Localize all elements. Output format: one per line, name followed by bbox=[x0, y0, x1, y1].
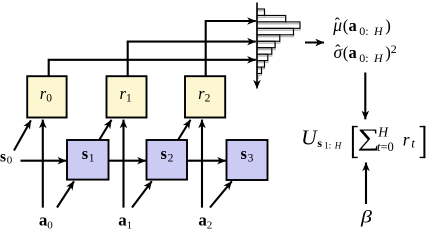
wire r0 top to histogram arrow bbox=[49, 60, 256, 76]
wire r1 top to histogram arrow bbox=[128, 42, 256, 76]
arrow a0 to s1 (diagonal) bbox=[57, 181, 74, 207]
histogram axis bbox=[256, 3, 258, 89]
svg-text:U: U bbox=[301, 126, 318, 150]
svg-text:0:: 0: bbox=[359, 51, 368, 65]
arrow a2 to s3 (diagonal) bbox=[210, 181, 232, 207]
svg-text:ˆ: ˆ bbox=[335, 16, 340, 33]
arrow a2 to r2 (vertical) bbox=[201, 120, 203, 208]
svg-text:1: 1 bbox=[126, 92, 132, 104]
arrow a0 to r0 (vertical) bbox=[42, 120, 44, 208]
label mu-hat(a_0:H) bbox=[332, 15, 391, 38]
svg-text:H: H bbox=[334, 141, 342, 151]
svg-text:0: 0 bbox=[7, 155, 13, 167]
svg-text:1: 1 bbox=[89, 152, 95, 164]
svg-text:r: r bbox=[403, 129, 410, 149]
svg-text:1: 1 bbox=[127, 219, 133, 230]
svg-text:s: s bbox=[0, 148, 6, 165]
svg-text:a: a bbox=[349, 43, 357, 62]
reward box r0 bbox=[27, 76, 66, 117]
wire s0 to s1 bbox=[21, 160, 67, 162]
svg-text:3: 3 bbox=[248, 152, 254, 164]
histogram black bars bbox=[257, 9, 300, 74]
state box s2 bbox=[147, 140, 188, 180]
svg-text:t=0: t=0 bbox=[377, 140, 394, 154]
arrow a1 to r1 (vertical) bbox=[122, 120, 124, 208]
svg-text:s: s bbox=[82, 144, 89, 163]
histogram gray bars (shadow copy) bbox=[257, 11, 300, 79]
svg-text:0:: 0: bbox=[359, 24, 368, 38]
state box s3 bbox=[227, 140, 268, 180]
svg-text:a: a bbox=[349, 16, 357, 35]
arrow up from beta to utility bracket bbox=[365, 163, 367, 205]
wire s2 to s3 bbox=[187, 160, 226, 162]
svg-text:s: s bbox=[161, 144, 168, 163]
wire s1 to s2 bbox=[109, 160, 146, 162]
svg-text:2: 2 bbox=[205, 92, 211, 104]
arrow s1 to r1 (diagonal) bbox=[99, 120, 111, 140]
svg-text:ˆ: ˆ bbox=[335, 42, 340, 59]
arrow histogram to mu/sigma text bbox=[305, 41, 324, 43]
state box s1 bbox=[67, 140, 109, 180]
svg-text:2: 2 bbox=[168, 152, 174, 164]
svg-text:): ) bbox=[385, 16, 391, 35]
svg-text:H: H bbox=[377, 125, 389, 140]
big left bracket bbox=[352, 126, 354, 158]
svg-text:H: H bbox=[373, 24, 384, 38]
wire r2 top to histogram arrow bbox=[206, 21, 256, 76]
svg-text:s: s bbox=[317, 136, 322, 150]
svg-text:1:: 1: bbox=[324, 141, 331, 151]
reward box r1 bbox=[107, 76, 147, 117]
svg-text:0: 0 bbox=[47, 219, 53, 230]
svg-text:2: 2 bbox=[391, 42, 397, 56]
svg-text:s: s bbox=[241, 144, 248, 163]
big right bracket bbox=[423, 126, 425, 158]
svg-text:t: t bbox=[411, 136, 415, 151]
label sigma-hat(a_0:H)^2 bbox=[334, 42, 397, 65]
reward box r2 bbox=[185, 76, 225, 117]
arrow a1 to s2 (diagonal) bbox=[132, 181, 152, 207]
arrow s0 to r0 (diagonal) bbox=[14, 120, 31, 150]
svg-text:2: 2 bbox=[207, 219, 213, 230]
svg-text:H: H bbox=[373, 51, 384, 65]
arrow s2 to r2 (diagonal) bbox=[178, 120, 191, 140]
svg-text:0: 0 bbox=[46, 92, 52, 104]
label U_{s_1:H} utility bbox=[301, 126, 342, 151]
svg-text:β: β bbox=[360, 207, 372, 227]
arrow down from sigma text to utility bracket bbox=[364, 73, 366, 120]
